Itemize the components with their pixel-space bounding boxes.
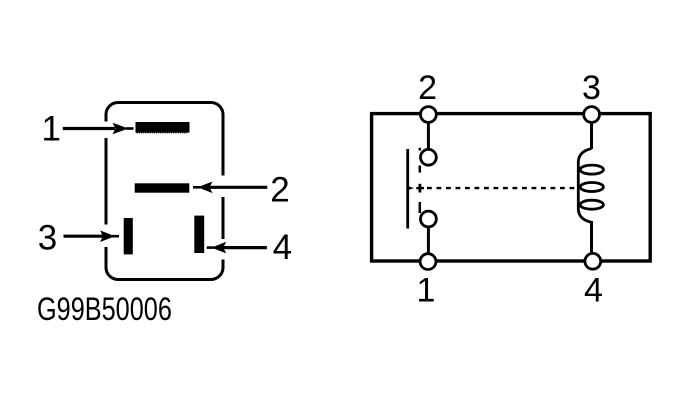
svg-text:3: 3 bbox=[38, 219, 57, 258]
svg-text:4: 4 bbox=[584, 272, 603, 310]
svg-text:G99B50006: G99B50006 bbox=[37, 292, 172, 328]
svg-text:2: 2 bbox=[270, 170, 289, 209]
svg-text:3: 3 bbox=[582, 69, 601, 107]
svg-text:1: 1 bbox=[417, 272, 436, 310]
svg-text:2: 2 bbox=[418, 69, 437, 107]
svg-text:1: 1 bbox=[41, 110, 60, 149]
svg-text:4: 4 bbox=[273, 228, 292, 267]
